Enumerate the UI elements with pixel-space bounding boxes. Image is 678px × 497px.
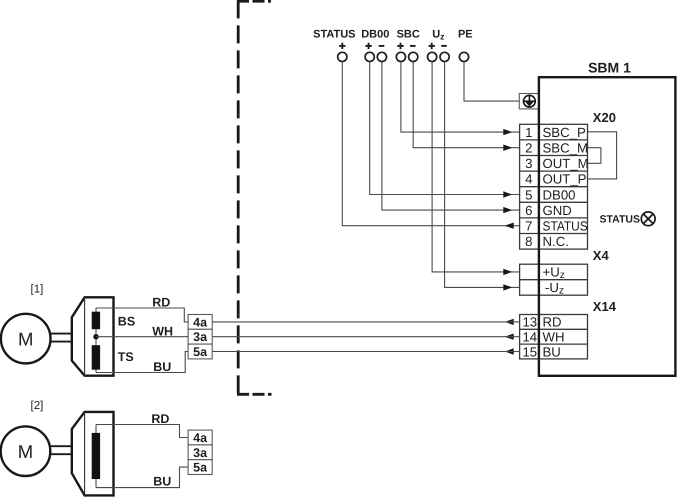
svg-text:8: 8 [525,234,532,249]
svg-text:5a: 5a [193,345,208,359]
wire PE to PE box [464,62,519,102]
svg-text:2: 2 [525,141,532,156]
motor 2 M circle [1,426,51,476]
svg-text:STATUS: STATUS [600,213,640,225]
svg-text:SBC_P: SBC_P [543,125,586,140]
svg-text:M: M [18,441,33,462]
motor2 terminal block 4a/3a/5a [188,430,212,474]
svg-text:5a: 5a [193,461,208,475]
svg-text:SBC_M: SBC_M [543,141,588,156]
jumper X20.2 to X20.3 [588,148,601,164]
motor1 WH wire [96,336,188,338]
svg-text:X14: X14 [593,299,617,314]
svg-text:DB00: DB00 [543,187,576,202]
wire Uz- to X4 [445,62,520,288]
motor2 RD wire [96,425,188,438]
svg-text:15: 15 [522,344,537,359]
motor1 BU wire [96,352,188,373]
motor 2 connector housing [72,412,114,496]
motor 1 sensor wire [95,308,97,373]
svg-text:M: M [18,328,33,349]
cabinet boundary dashed line [237,0,272,394]
motor1 terminal block 4a/3a/5a [188,315,212,359]
wires from terminals to SBM [342,62,616,288]
svg-text:3: 3 [525,156,532,171]
jumper X20.1 to X20.4 [588,132,617,179]
svg-text:OUT_P: OUT_P [543,172,587,187]
svg-text:3a: 3a [193,330,208,344]
motor2 BU wire [96,467,188,488]
svg-text:Uz: Uz [432,28,445,41]
svg-text:X20: X20 [593,110,616,125]
svg-text:6: 6 [525,203,532,218]
wire Uz+ to X4 [432,62,519,272]
svg-text:X4: X4 [593,248,610,263]
sensor TS bar [92,345,100,370]
svg-text:RD: RD [543,315,562,330]
polarity marks [339,43,447,49]
svg-text:TS: TS [118,350,134,364]
sensor BS bar [92,312,100,330]
SBM 1 box [539,77,676,376]
X20 terminal block [520,124,588,249]
arrows out of X14 [505,319,514,325]
svg-text:WH: WH [543,330,565,345]
X4 terminal block [520,264,588,295]
motor1 RD wire [96,308,188,322]
svg-text:SBM 1: SBM 1 [588,60,631,76]
motor 1 shaft [51,334,72,342]
svg-text:BU: BU [153,475,171,489]
svg-text:RD: RD [152,295,170,309]
motor 2 sensor wire [95,425,97,488]
PE earth symbol [524,95,536,107]
svg-text:7: 7 [525,219,532,234]
svg-text:OUT_M: OUT_M [543,156,589,171]
svg-text:14: 14 [522,330,537,345]
wire DB00+ to X20.5 [370,62,520,195]
motor 2 shaft [50,446,72,454]
sensor TF bar [92,433,100,479]
X20 pin numbers and names [525,125,589,249]
signal direction arrows into X20 [503,129,513,355]
terminal circles [338,52,469,61]
junction dot [93,334,98,339]
svg-text:4: 4 [525,172,532,187]
motor 1 connector housing [72,297,114,375]
svg-text:1: 1 [525,125,532,140]
svg-text:[2]: [2] [31,400,44,412]
svg-text:[1]: [1] [31,283,44,295]
svg-text:DB00: DB00 [361,28,389,40]
arrows into X4 [503,269,512,275]
svg-text:BS: BS [118,314,135,328]
svg-text:STATUS: STATUS [313,28,355,40]
wire STATUS to X20.7 [342,62,519,226]
svg-text:STATUS: STATUS [543,219,588,234]
svg-text:4a: 4a [193,315,208,329]
svg-text:13: 13 [522,315,537,330]
svg-text:PE: PE [458,28,473,40]
X14 terminal block [520,315,588,359]
motor 1 M circle [1,314,51,364]
svg-text:3a: 3a [193,446,208,460]
svg-text:5: 5 [525,187,532,202]
svg-text:BU: BU [543,344,561,359]
wire SBC- to X20.2 [413,62,519,148]
PE terminal box [519,94,539,109]
arrow out of X20.7 [505,223,514,229]
svg-text:BU: BU [153,360,171,374]
svg-text:GND: GND [543,203,572,218]
svg-text:SBC: SBC [397,28,420,40]
wire SBC+ to X20.1 [401,62,520,133]
STATUS LED symbol [641,212,655,226]
svg-text:4a: 4a [193,431,208,445]
svg-text:N.C.: N.C. [543,234,569,249]
wire DB00- to X20.6 [382,62,520,211]
wires motor1 block to X14 [212,322,519,352]
svg-text:RD: RD [151,412,169,426]
